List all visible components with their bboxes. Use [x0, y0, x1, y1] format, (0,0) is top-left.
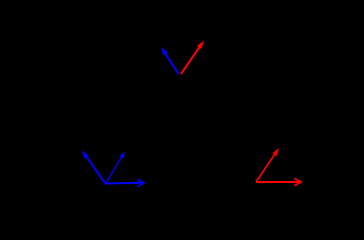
- vector v2x component (red, right cluster, horizontal): [256, 178, 302, 185]
- vector v2 (red, right cluster, diagonal up-right): [256, 148, 279, 182]
- vector v2 (red, apex cluster, up-right): [181, 41, 204, 75]
- vector v1 (blue, apex cluster, up-left): [161, 47, 179, 75]
- vector v1x component (blue, left cluster, horizontal): [105, 179, 145, 186]
- vector v1 (blue, left cluster, up-left): [82, 151, 105, 184]
- vector v1y component (blue, left cluster, thin up-right): [107, 152, 126, 183]
